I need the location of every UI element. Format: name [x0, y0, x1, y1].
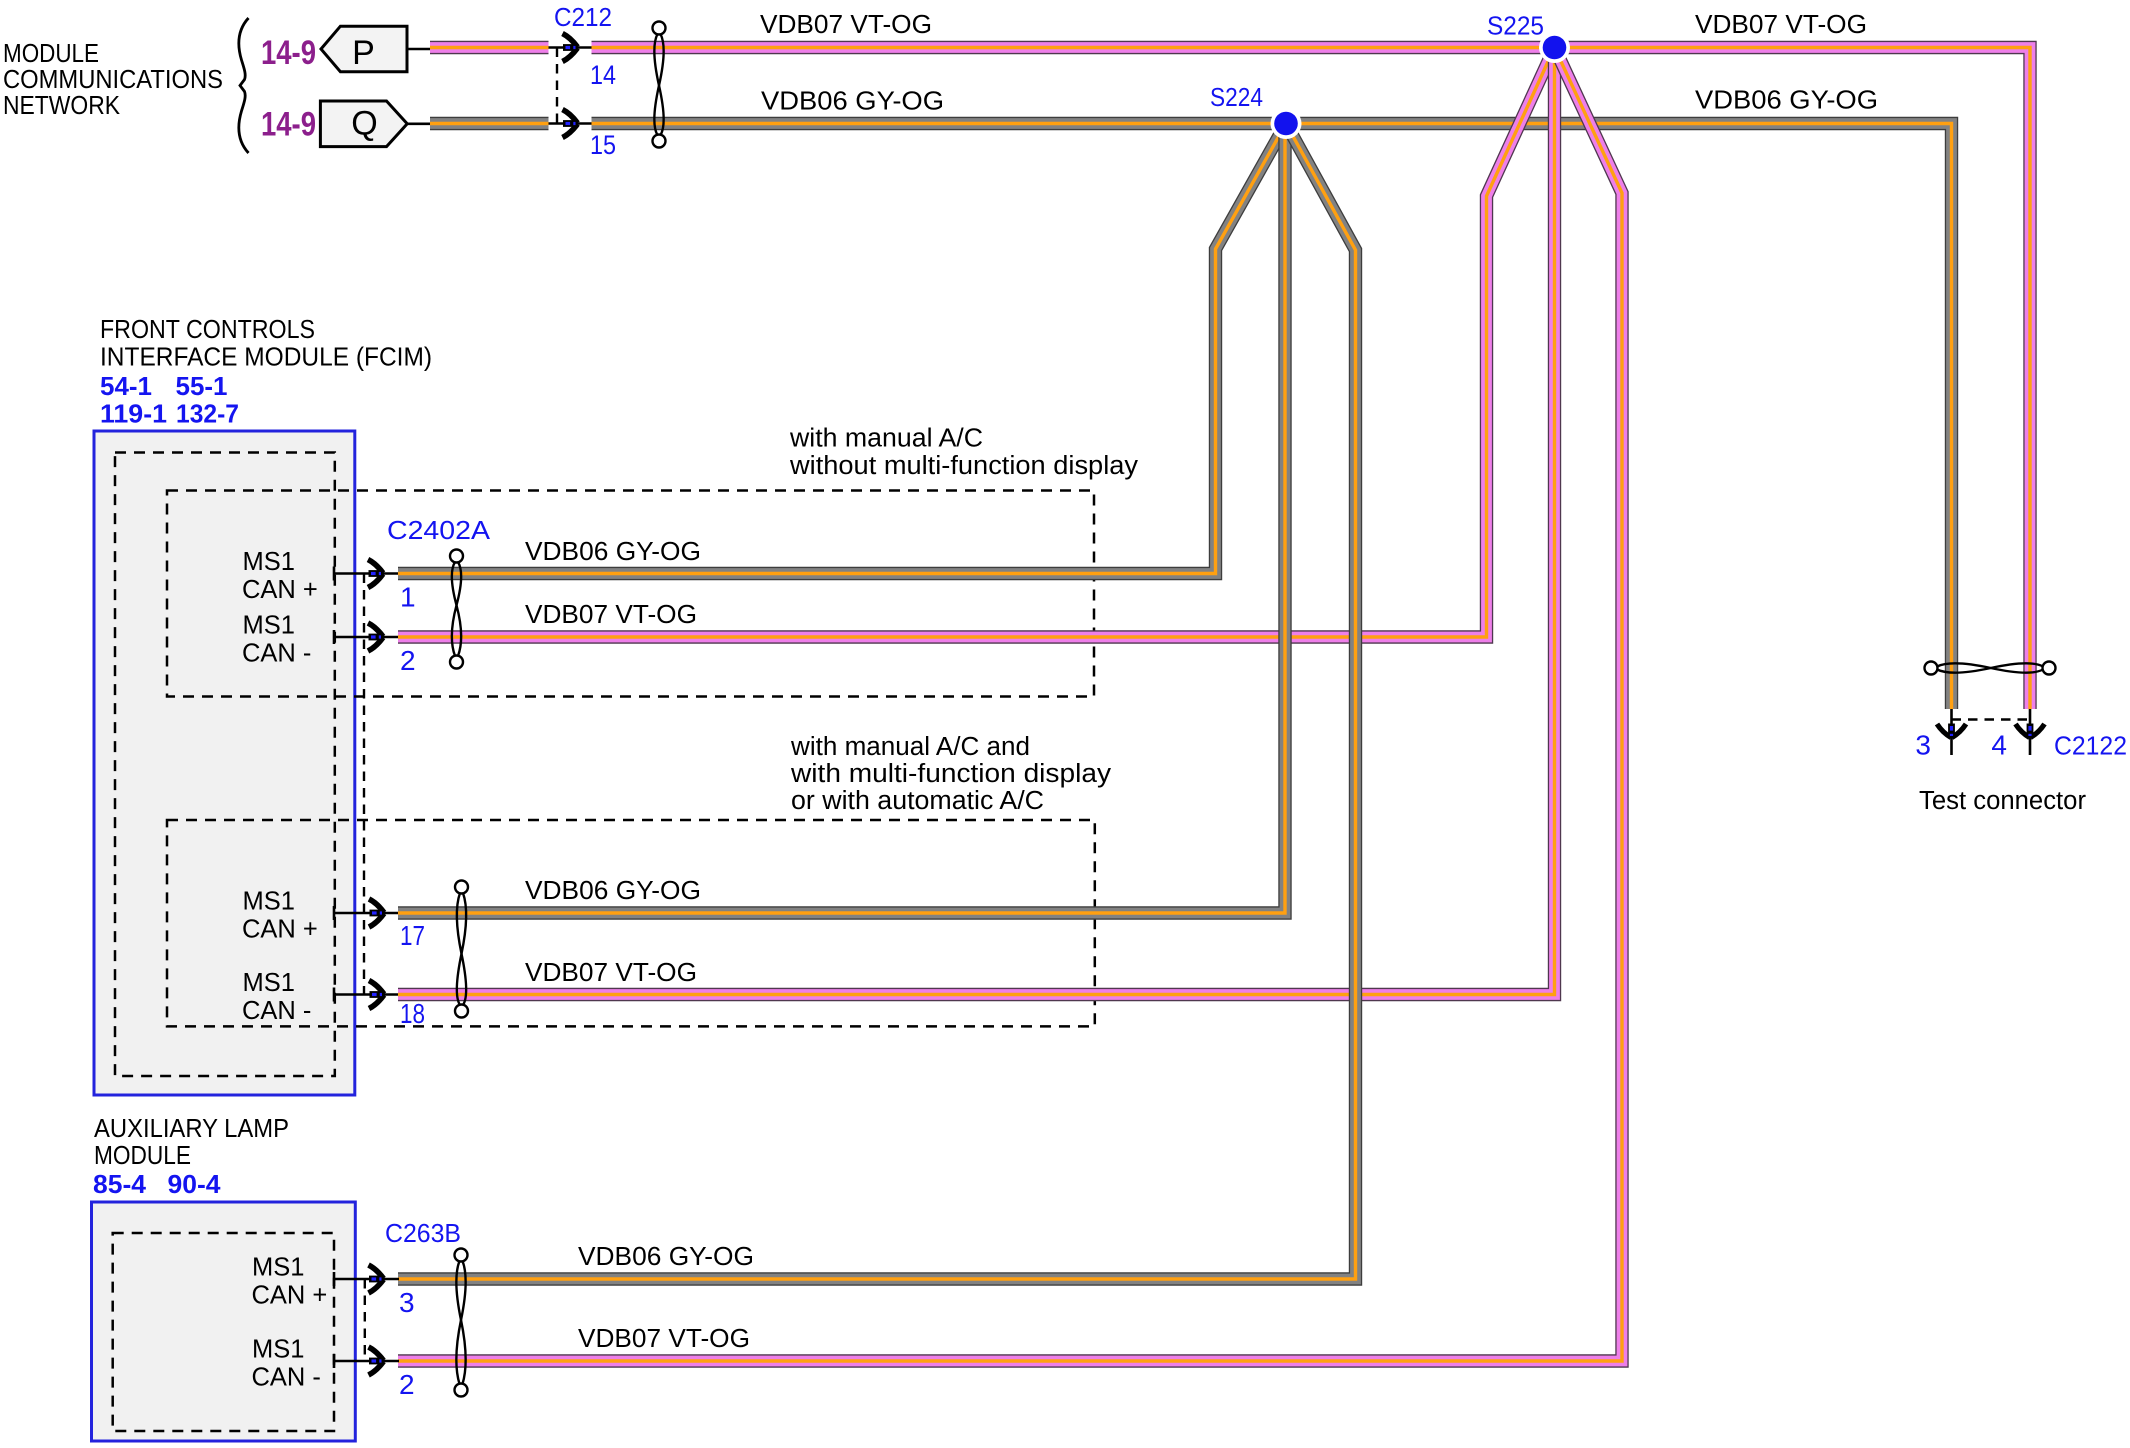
svg-text:MODULE: MODULE [94, 1142, 191, 1170]
splice S225 [1539, 32, 1570, 63]
svg-text:3: 3 [399, 1287, 415, 1318]
connector C2122 dashed line [1952, 718, 2031, 720]
svg-text:14: 14 [590, 60, 616, 90]
svg-text:132-7: 132-7 [176, 401, 239, 429]
svg-text:with manual A/C: with manual A/C [789, 425, 983, 453]
connector arrow C2402A pin 1 [368, 560, 384, 588]
test connector pin 3 lead [1950, 709, 1953, 755]
svg-text:S224: S224 [1210, 84, 1263, 112]
svg-text:AUXILIARY LAMP: AUXILIARY LAMP [94, 1115, 289, 1143]
connector arrow C2402A pin 2 [368, 623, 384, 651]
twisted pair symbol at C212 [653, 22, 666, 148]
svg-text:14-9: 14-9 [261, 34, 316, 72]
svg-text:with manual A/C and: with manual A/C and [790, 733, 1030, 761]
svg-text:C2402A: C2402A [387, 517, 490, 545]
svg-text:17: 17 [400, 920, 425, 951]
svg-text:4: 4 [1991, 730, 2007, 761]
svg-text:VDB07 VT-OG: VDB07 VT-OG [525, 959, 697, 987]
svg-text:2: 2 [399, 1369, 415, 1400]
svg-text:VDB07 VT-OG: VDB07 VT-OG [1695, 11, 1867, 39]
connector arrow C263B pin 3 [369, 1265, 385, 1293]
twisted pair symbol at C263B [455, 1249, 468, 1397]
ALM module box [92, 1202, 356, 1441]
svg-text:CAN -: CAN - [252, 1364, 321, 1392]
svg-text:MS1: MS1 [252, 1254, 304, 1282]
svg-text:2: 2 [400, 645, 416, 676]
twisted pair symbol at test connector [1925, 662, 2056, 675]
svg-text:with multi-function display: with multi-function display [790, 760, 1111, 788]
pin stub FCIM MS1 CAN- pin 18 [334, 988, 398, 1002]
svg-text:VDB07 VT-OG: VDB07 VT-OG [578, 1325, 750, 1353]
svg-text:18: 18 [400, 998, 425, 1029]
svg-text:CAN -: CAN - [242, 997, 311, 1025]
svg-text:CAN -: CAN - [242, 640, 311, 668]
pin stub FCIM MS1 CAN- pin 2 [334, 630, 398, 644]
connector C212 dashed line [556, 48, 558, 124]
svg-text:C2122: C2122 [2054, 733, 2127, 761]
svg-text:C212: C212 [554, 4, 612, 32]
wire stub C212 pin 14 [549, 46, 592, 49]
wire VDB07 VT-OG main (P to test connector) [430, 48, 2030, 710]
wire VDB06 GY-OG main (Q to test connector) [430, 124, 1952, 710]
svg-text:MS1: MS1 [243, 888, 295, 916]
connector arrow C212 pin 14 [563, 34, 579, 62]
svg-text:CAN +: CAN + [242, 576, 318, 604]
pin stub ALM MS1 CAN- pin 2 [334, 1354, 399, 1368]
svg-text:1: 1 [400, 582, 416, 613]
svg-text:VDB06 GY-OG: VDB06 GY-OG [761, 88, 944, 116]
svg-text:VDB07 VT-OG: VDB07 VT-OG [760, 11, 932, 39]
svg-text:or with automatic A/C: or with automatic A/C [791, 787, 1044, 815]
svg-text:CAN +: CAN + [252, 1282, 328, 1310]
svg-text:without multi-function display: without multi-function display [789, 452, 1138, 480]
svg-text:119-1: 119-1 [100, 401, 167, 429]
variant box: with manual A/C and multi-function display or automatic A/C [167, 820, 1095, 1026]
svg-text:S225: S225 [1487, 13, 1544, 41]
wire VDB06 branch S224 to FCIM pin 1 [398, 124, 1286, 574]
brace for module communications network [239, 18, 249, 153]
FCIM module box [94, 431, 355, 1095]
svg-text:COMMUNICATIONS: COMMUNICATIONS [3, 66, 223, 94]
svg-text:CAN +: CAN + [242, 916, 318, 944]
svg-text:VDB06 GY-OG: VDB06 GY-OG [578, 1243, 754, 1271]
connector arrow C2122 pin 4 [2016, 724, 2045, 739]
svg-text:Test connector: Test connector [1919, 787, 2087, 815]
FCIM internal dashed box [115, 453, 335, 1077]
svg-text:VDB07 VT-OG: VDB07 VT-OG [525, 601, 697, 629]
svg-text:55-1: 55-1 [176, 373, 228, 401]
svg-text:14-9: 14-9 [261, 106, 316, 144]
ALM internal dashed box [113, 1233, 334, 1431]
wire VDB06 branch S224 to FCIM pin 17 [398, 124, 1285, 914]
svg-text:NETWORK: NETWORK [3, 92, 120, 120]
splice S224 [1271, 108, 1302, 139]
twisted pair symbol at C2402A pins 1-2 [450, 550, 463, 669]
off-page connector tag P [321, 26, 430, 71]
svg-text:C263B: C263B [385, 1220, 461, 1248]
test connector pin 4 lead [2029, 709, 2032, 755]
svg-text:15: 15 [590, 130, 616, 160]
wire VDB06 branch S224 to ALM pin 3 [398, 124, 1356, 1280]
svg-text:90-4: 90-4 [168, 1171, 222, 1199]
svg-text:MS1: MS1 [243, 969, 295, 997]
connector arrow C263B pin 2 [369, 1347, 385, 1375]
svg-text:VDB06 GY-OG: VDB06 GY-OG [525, 877, 701, 905]
wire stub C212 pin 15 [549, 122, 592, 125]
svg-text:3: 3 [1915, 730, 1931, 761]
svg-text:VDB06 GY-OG: VDB06 GY-OG [1695, 87, 1878, 115]
svg-text:Q: Q [351, 105, 377, 143]
connector arrow C2402A pin 18 [369, 981, 385, 1009]
svg-text:MODULE: MODULE [3, 40, 99, 68]
connector arrow C2402A pin 17 [369, 899, 385, 927]
svg-text:85-4: 85-4 [93, 1171, 147, 1199]
connector arrow C2122 pin 3 [1937, 724, 1966, 739]
wire VDB07 branch S225 to ALM pin 2 [398, 48, 1622, 1362]
wire VDB07 branch S225 to FCIM pin 18 [398, 48, 1555, 995]
twisted pair symbol at C2402A pins 17-18 [455, 881, 468, 1018]
svg-text:54-1: 54-1 [100, 373, 152, 401]
svg-text:P: P [352, 34, 375, 72]
pin stub ALM MS1 CAN+ pin 3 [334, 1272, 399, 1286]
pin stub FCIM MS1 CAN+ pin 1 [334, 567, 398, 581]
connector arrow C212 pin 15 [563, 110, 579, 138]
wire VDB07 branch S225 to FCIM pin 2 [398, 48, 1555, 638]
pin stub FCIM MS1 CAN+ pin 17 [334, 906, 398, 920]
connector C263B dashed line [364, 1279, 366, 1361]
svg-text:FRONT CONTROLS: FRONT CONTROLS [100, 316, 315, 344]
svg-text:INTERFACE MODULE (FCIM): INTERFACE MODULE (FCIM) [100, 344, 432, 372]
off-page connector tag Q [320, 101, 430, 147]
variant box: with manual A/C without multi-function display [167, 491, 1094, 697]
svg-text:MS1: MS1 [252, 1336, 304, 1364]
svg-text:MS1: MS1 [243, 548, 295, 576]
svg-text:MS1: MS1 [243, 612, 295, 640]
svg-text:VDB06 GY-OG: VDB06 GY-OG [525, 538, 701, 566]
connector C2402A dashed line [363, 574, 365, 995]
